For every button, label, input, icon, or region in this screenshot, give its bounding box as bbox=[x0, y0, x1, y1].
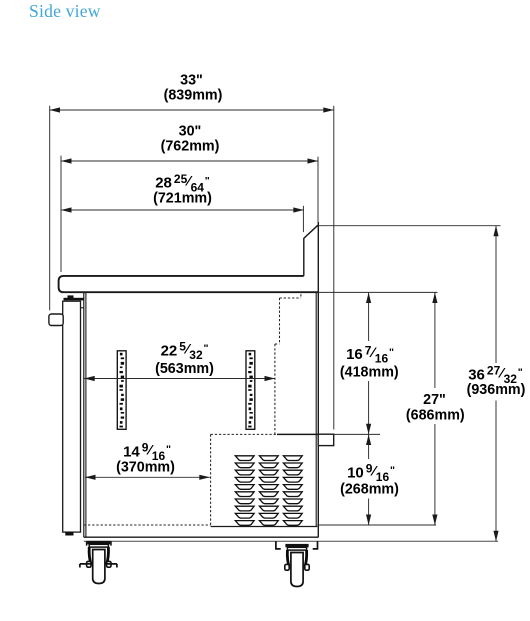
svg-text:(686mm): (686mm) bbox=[406, 408, 465, 424]
caster rear-right bbox=[276, 541, 318, 586]
svg-text:(268mm): (268mm) bbox=[340, 481, 399, 497]
dim line 14in bbox=[85, 476, 210, 478]
left caster brake tabs bbox=[80, 564, 117, 568]
compartment bottom solid bbox=[211, 526, 318, 528]
left caster mount ticks bbox=[87, 541, 111, 545]
extension line 33in left bbox=[49, 106, 51, 311]
dashed duct: short vertical under slab bbox=[300, 294, 302, 298]
reference line slab bottom right bbox=[318, 291, 437, 293]
svg-text:(563mm): (563mm) bbox=[155, 361, 214, 377]
cabinet bottom front line bbox=[84, 536, 318, 538]
vent louvres bbox=[235, 456, 302, 526]
svg-text:33": 33" bbox=[180, 73, 203, 89]
dashed duct vertical upper bbox=[279, 298, 281, 344]
dim line 22in interior bbox=[84, 378, 275, 380]
svg-text:Side view: Side view bbox=[29, 1, 101, 21]
dim line 28in bbox=[61, 209, 304, 211]
svg-text:30": 30" bbox=[179, 124, 202, 140]
dim line 10in vertical bbox=[368, 435, 370, 460]
rear protrusion box bbox=[318, 434, 334, 445]
rear riser chamfer bbox=[304, 225, 318, 276]
dashed duct vertical lower bbox=[274, 344, 276, 434]
extension line 30/28 left bbox=[60, 156, 62, 272]
door bottom foot bbox=[65, 532, 73, 536]
extension line 28 right bbox=[302, 206, 304, 232]
dim line 36in vertical bbox=[495, 226, 497, 363]
svg-text:(721mm): (721mm) bbox=[153, 191, 212, 207]
svg-text:27": 27" bbox=[423, 392, 446, 408]
extension line 30 right bbox=[317, 157, 319, 222]
svg-text:(839mm): (839mm) bbox=[164, 88, 223, 104]
door gasket step bbox=[81, 307, 84, 309]
dim line 16in vertical bbox=[368, 293, 370, 342]
front wall outer line bbox=[83, 292, 85, 537]
pilaster strip right bbox=[246, 351, 255, 430]
door handle block bbox=[49, 314, 63, 326]
worktop slab bbox=[59, 276, 319, 292]
front wall inner line bbox=[85, 292, 87, 537]
door panel bbox=[63, 301, 81, 532]
solid compartment top near wall bbox=[277, 433, 318, 435]
dashed interior bottom bbox=[84, 524, 211, 526]
extension line 33in right bbox=[333, 106, 335, 430]
reference line compressor top right bbox=[334, 433, 380, 435]
dim line 30in bbox=[61, 160, 318, 162]
dim line 33in bbox=[50, 109, 334, 111]
dashed duct top horizontal bbox=[280, 297, 301, 299]
base/caster reference line bbox=[84, 540, 498, 542]
hinge knuckle bbox=[68, 295, 74, 298]
svg-text:(936mm): (936mm) bbox=[467, 382, 526, 398]
dashed duct step bbox=[275, 343, 280, 345]
rear wall outer bbox=[317, 222, 319, 537]
svg-text:225⁄32": 225⁄32" bbox=[161, 340, 209, 362]
svg-text:(418mm): (418mm) bbox=[340, 364, 399, 380]
dashed compartment left bbox=[210, 434, 212, 526]
caster front-left bbox=[87, 541, 111, 584]
dashed compartment top bbox=[211, 433, 277, 435]
pilaster strip left bbox=[117, 351, 126, 430]
reference line overall top bbox=[318, 225, 501, 227]
door top hinge bar bbox=[64, 298, 85, 301]
rear wall inner bbox=[315, 292, 317, 526]
svg-text:(762mm): (762mm) bbox=[161, 139, 220, 155]
reference line cabinet bottom right bbox=[317, 524, 436, 526]
dim line 27in vertical bbox=[434, 293, 436, 389]
svg-text:(370mm): (370mm) bbox=[116, 459, 175, 475]
svg-text:167⁄16": 167⁄16" bbox=[346, 343, 394, 365]
